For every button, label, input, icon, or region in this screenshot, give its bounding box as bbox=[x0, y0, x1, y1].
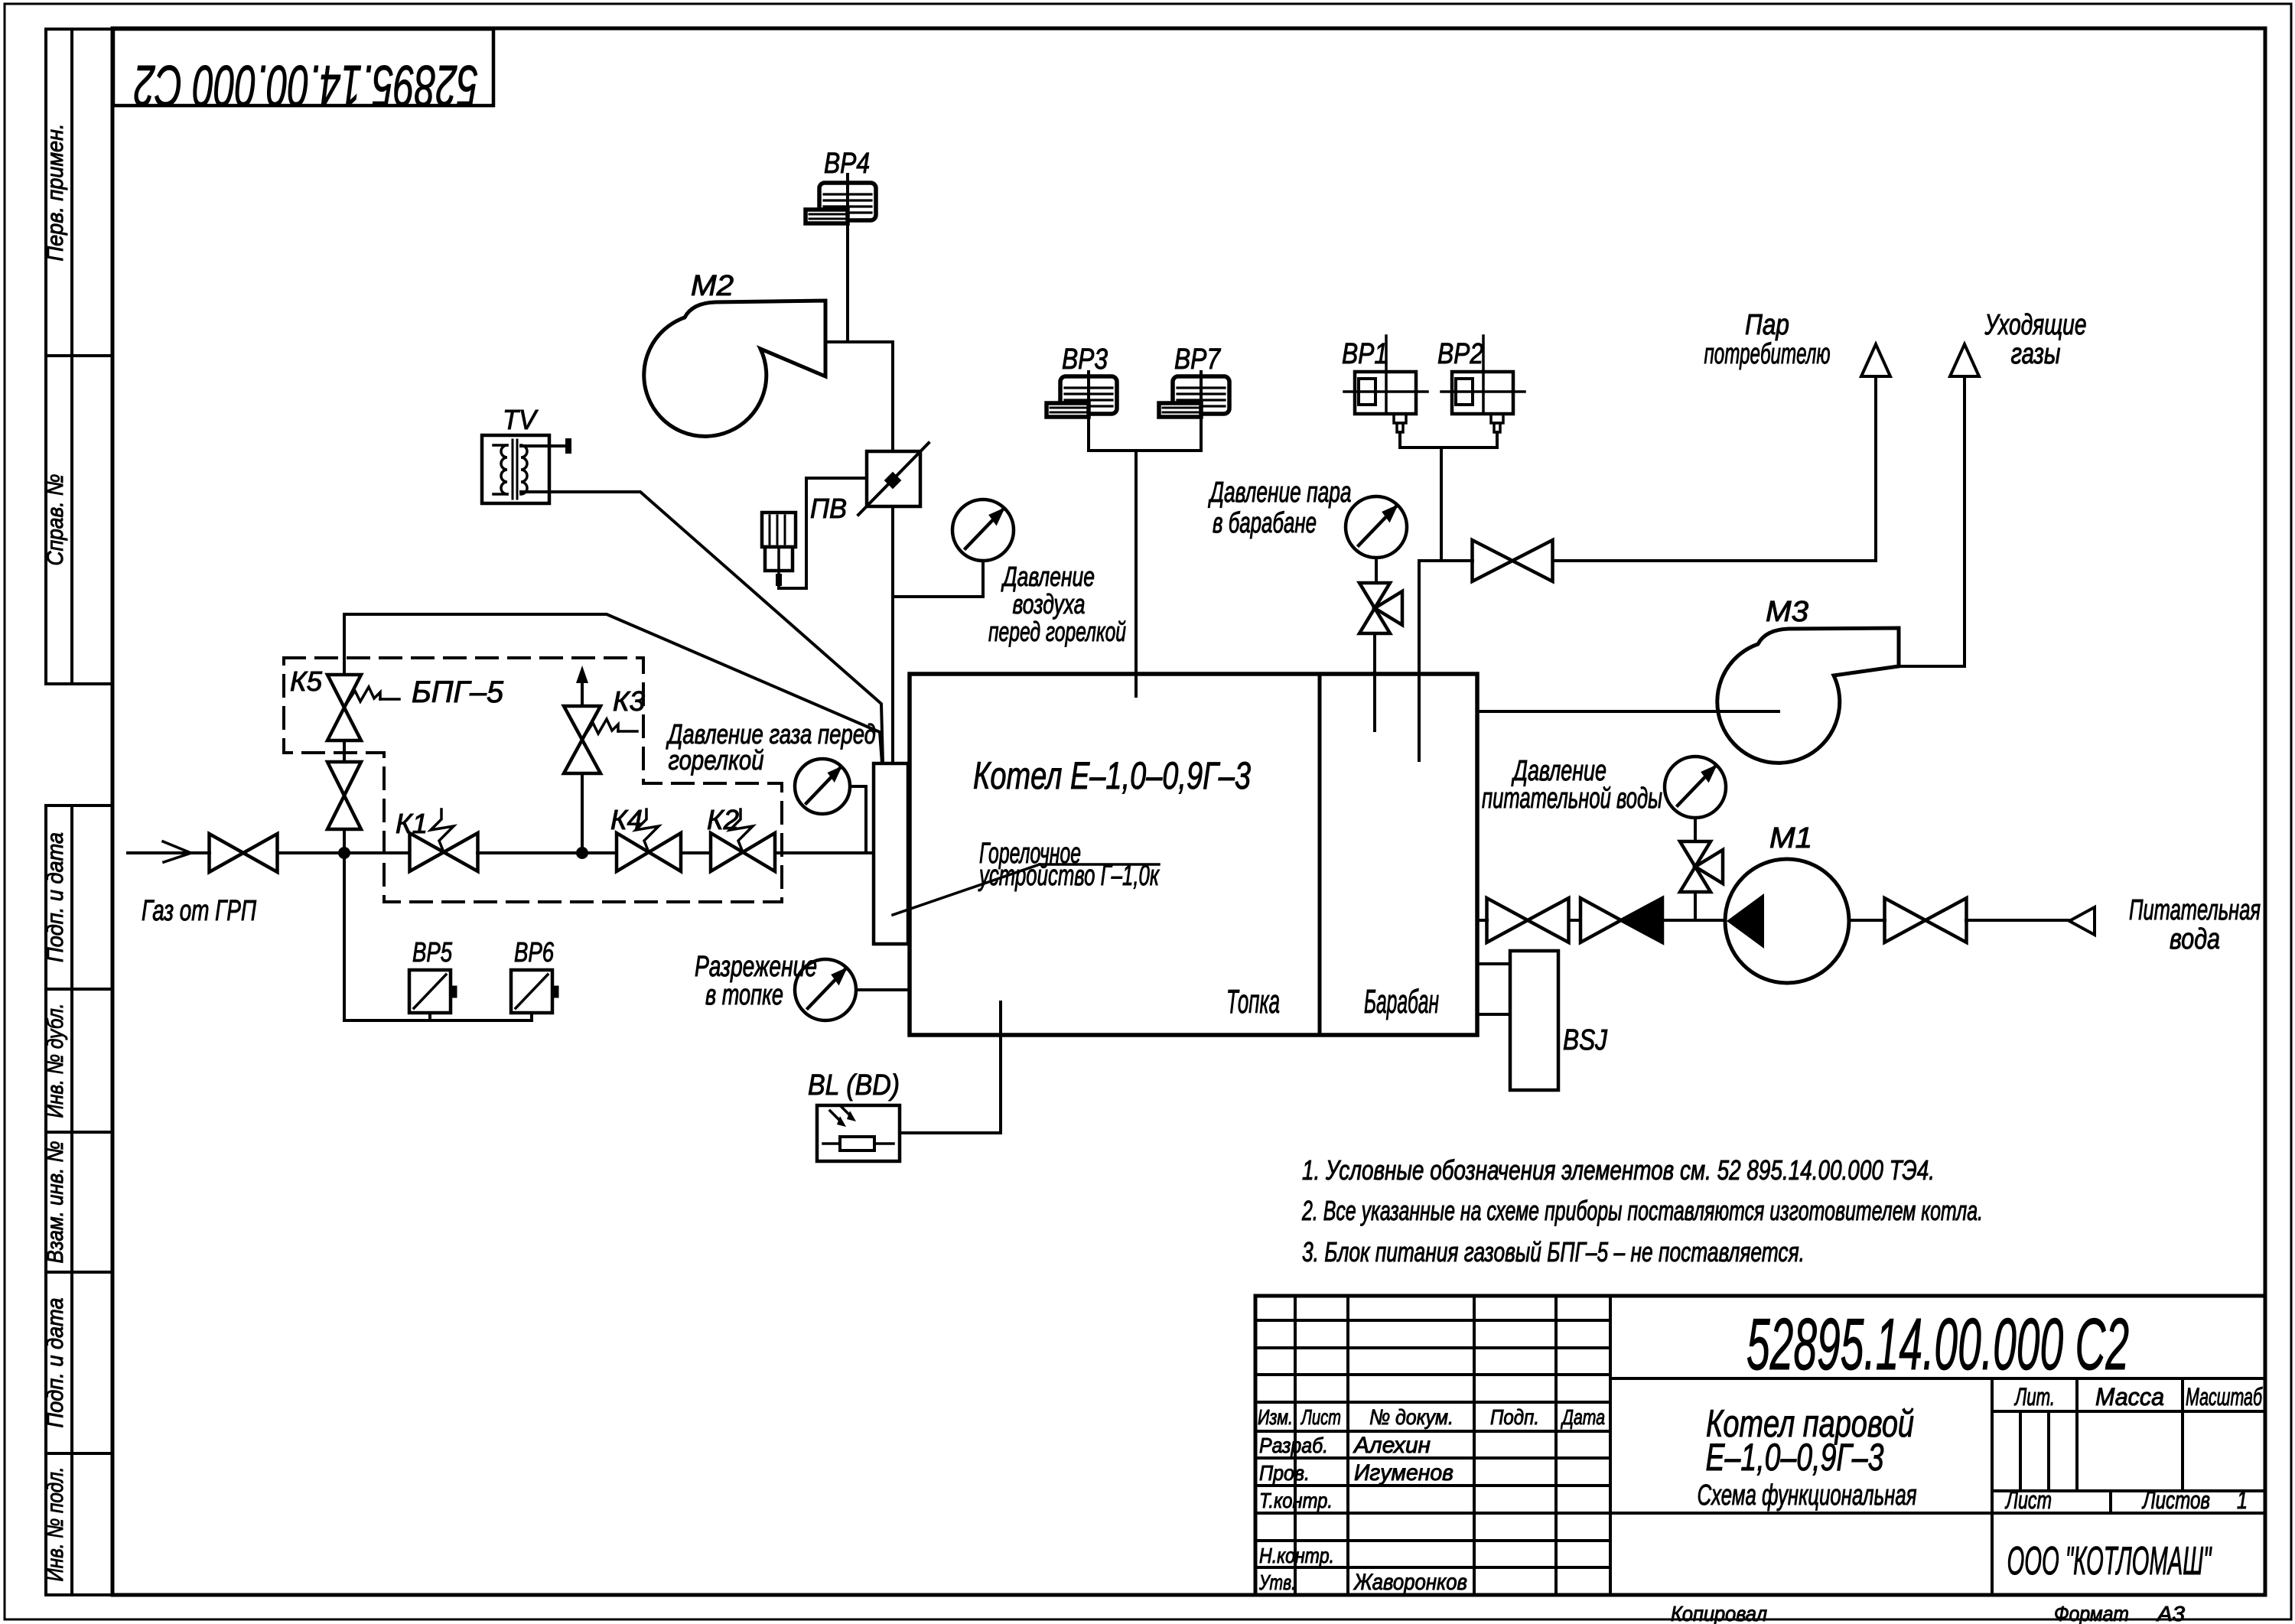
svg-text:Инв. № дубл.: Инв. № дубл. bbox=[43, 1004, 68, 1118]
title block texts bbox=[1258, 1303, 2263, 1595]
instrument ВР7 bbox=[1159, 343, 1229, 451]
svg-text:Масса: Масса bbox=[2095, 1383, 2164, 1411]
wire gas main bbox=[278, 847, 874, 859]
svg-text:потребителю: потребителю bbox=[1704, 338, 1831, 370]
wire feed water line bbox=[1477, 919, 2069, 922]
drum level device BSJ bbox=[1477, 951, 1608, 1090]
svg-text:Подп. и дата: Подп. и дата bbox=[43, 1298, 68, 1428]
svg-text:Лист: Лист bbox=[1300, 1405, 1341, 1429]
svg-text:Листов: Листов bbox=[2141, 1486, 2210, 1514]
svg-text:питательной воды: питательной воды bbox=[1482, 783, 1662, 815]
svg-text:Т.контр.: Т.контр. bbox=[1259, 1489, 1333, 1512]
wire ВР1/ВР2 impulse bbox=[1400, 447, 1497, 561]
wire ignition gas line bbox=[344, 614, 882, 763]
svg-text:52895.14.00.000 С2: 52895.14.00.000 С2 bbox=[134, 53, 478, 118]
svg-text:ВР4: ВР4 bbox=[824, 148, 870, 180]
svg-text:в барабане: в барабане bbox=[1213, 507, 1317, 539]
svg-text:Питательная: Питательная bbox=[2129, 894, 2261, 926]
arrow feed water source bbox=[2069, 894, 2261, 955]
svg-text:ВР6: ВР6 bbox=[514, 936, 555, 968]
svg-text:ПВ: ПВ bbox=[810, 493, 847, 524]
svg-text:ВР7: ВР7 bbox=[1174, 343, 1222, 376]
gauge furnace vacuum bbox=[695, 951, 910, 1020]
svg-text:К5: К5 bbox=[290, 666, 323, 697]
igniter ПВ bbox=[762, 478, 867, 588]
svg-text:перед горелкой: перед горелкой bbox=[988, 616, 1126, 647]
svg-text:Е–1,0–0,9Г–3: Е–1,0–0,9Г–3 bbox=[1706, 1436, 1884, 1479]
transformer TV bbox=[482, 404, 571, 503]
svg-text:3. Блок питания газовый БП: 3. Блок питания газовый БПГ–5 – не поста… bbox=[1302, 1236, 1805, 1268]
instrument ВР2 bbox=[1437, 336, 1525, 447]
svg-text:Котел Е–1,0–0,9Г–3: Котел Е–1,0–0,9Г–3 bbox=[973, 754, 1251, 797]
svg-text:BSJ: BSJ bbox=[1563, 1024, 1608, 1056]
svg-text:ВР1: ВР1 bbox=[1342, 338, 1388, 370]
instrument ВР3 bbox=[1047, 343, 1117, 451]
svg-text:Изм.: Изм. bbox=[1258, 1405, 1293, 1429]
wire steam line bbox=[1419, 376, 1876, 760]
svg-text:Алехин: Алехин bbox=[1353, 1433, 1431, 1458]
arrow steam to consumer bbox=[1704, 309, 1891, 376]
svg-text:газы: газы bbox=[2011, 338, 2061, 370]
svg-text:2. Все указанные на схеме: 2. Все указанные на схеме приборы постав… bbox=[1301, 1195, 1983, 1226]
left margin graph boxes bbox=[43, 29, 112, 1595]
gauge drum pressure bbox=[1208, 477, 1407, 583]
instrument ВР1 bbox=[1342, 336, 1427, 447]
gauge air pressure bbox=[893, 500, 1126, 647]
svg-text:Газ от ГРП: Газ от ГРП bbox=[142, 895, 256, 927]
svg-text:Утв.: Утв. bbox=[1258, 1570, 1296, 1594]
notes bbox=[1301, 1154, 1983, 1268]
valve К5 branch bbox=[290, 614, 399, 853]
air damper bbox=[858, 443, 929, 515]
instrument ВР6 bbox=[511, 936, 558, 1020]
valve К4 bbox=[610, 804, 681, 871]
wire gas inlet bbox=[128, 841, 256, 927]
svg-text:Лист: Лист bbox=[2005, 1486, 2052, 1514]
valve К1 bbox=[396, 808, 478, 871]
arrow flue gases out bbox=[1950, 309, 2087, 376]
valve К2 bbox=[707, 804, 775, 871]
fan М3 smoke exhauster bbox=[1717, 596, 1899, 763]
wire ВР3/ВР7 to furnace bbox=[1089, 451, 1201, 696]
svg-text:Лит.: Лит. bbox=[2014, 1383, 2055, 1411]
flame sensor BL (BD) bbox=[808, 1002, 1001, 1161]
svg-text:Инв. № подл.: Инв. № подл. bbox=[43, 1467, 68, 1582]
svg-text:Схема функциональная: Схема функциональная bbox=[1698, 1479, 1917, 1512]
svg-text:Игуменов: Игуменов bbox=[1354, 1460, 1453, 1486]
svg-text:№ докум.: № докум. bbox=[1369, 1405, 1453, 1429]
svg-text:Взам. инв. №: Взам. инв. № bbox=[43, 1141, 68, 1264]
svg-text:TV: TV bbox=[503, 404, 539, 435]
pump М1 bbox=[1725, 822, 1849, 983]
instrument ВР5 bbox=[344, 853, 532, 1020]
fan М2 bbox=[644, 270, 825, 436]
svg-text:Уходящие: Уходящие bbox=[1984, 309, 2087, 341]
svg-text:БПГ–5: БПГ–5 bbox=[412, 675, 504, 709]
svg-text:ООО "КОТЛОМАШ": ООО "КОТЛОМАШ" bbox=[2007, 1539, 2212, 1583]
svg-text:BL (BD): BL (BD) bbox=[808, 1069, 900, 1102]
boiler vessel bbox=[910, 674, 1477, 1035]
svg-text:Справ. №: Справ. № bbox=[43, 474, 68, 566]
gauge gas pressure bbox=[666, 718, 876, 853]
wire flue gas bbox=[1477, 376, 1965, 711]
dashed boundary БПГ-5 bbox=[284, 658, 782, 902]
svg-text:52895.14.00.000 С2: 52895.14.00.000 С2 bbox=[1746, 1303, 2129, 1385]
feed valve near drum bbox=[1487, 898, 1569, 942]
instrument ВР4 bbox=[806, 148, 876, 223]
svg-text:М3: М3 bbox=[1766, 596, 1808, 628]
svg-text:в топке: в топке bbox=[705, 979, 783, 1011]
svg-text:К2: К2 bbox=[707, 804, 739, 835]
three-way cock feed bbox=[1680, 841, 1723, 920]
svg-text:ВР5: ВР5 bbox=[412, 936, 453, 968]
three-way cock drum bbox=[1359, 583, 1402, 731]
svg-text:Копировал: Копировал bbox=[1671, 1602, 1767, 1624]
svg-text:Н.контр.: Н.контр. bbox=[1259, 1544, 1334, 1567]
svg-text:К1: К1 bbox=[396, 808, 428, 839]
svg-text:горелкой: горелкой bbox=[669, 744, 764, 776]
top-left inverted document number box bbox=[113, 29, 493, 118]
burner label leader bbox=[893, 838, 1160, 915]
svg-text:ВР3: ВР3 bbox=[1062, 343, 1108, 376]
svg-text:Пров.: Пров. bbox=[1259, 1461, 1310, 1485]
steam stop valve bbox=[1473, 540, 1553, 581]
svg-text:1: 1 bbox=[2237, 1486, 2248, 1514]
svg-text:Дата: Дата bbox=[1561, 1405, 1605, 1429]
valve К3 with vent arrow bbox=[564, 666, 645, 853]
svg-text:Масштаб: Масштаб bbox=[2186, 1383, 2263, 1411]
svg-text:воздуха: воздуха bbox=[1013, 588, 1086, 620]
inlet gate valve bbox=[210, 834, 278, 872]
svg-text:Барабан: Барабан bbox=[1364, 983, 1439, 1020]
title block bbox=[1255, 1296, 2265, 1595]
svg-text:Формат: Формат bbox=[2054, 1602, 2129, 1624]
svg-text:Пар: Пар bbox=[1745, 309, 1789, 341]
burner unit bbox=[874, 763, 908, 944]
svg-text:А3: А3 bbox=[2156, 1602, 2186, 1624]
svg-text:М1: М1 bbox=[1769, 822, 1812, 854]
svg-text:Давление пара: Давление пара bbox=[1208, 477, 1352, 509]
svg-text:Разраб.: Разраб. bbox=[1259, 1434, 1328, 1457]
svg-text:Жаворонков: Жаворонков bbox=[1353, 1570, 1467, 1595]
svg-text:Подп. и дата: Подп. и дата bbox=[43, 832, 68, 962]
svg-text:Разрежение: Разрежение bbox=[695, 951, 817, 983]
svg-text:К4: К4 bbox=[610, 804, 643, 835]
check valve bbox=[1580, 898, 1662, 942]
svg-text:М2: М2 bbox=[691, 270, 734, 302]
wire air duct bbox=[825, 223, 893, 763]
svg-text:Перв. примен.: Перв. примен. bbox=[43, 124, 68, 262]
svg-text:Топка: Топка bbox=[1226, 983, 1280, 1020]
wire TV to burner bbox=[549, 492, 883, 763]
svg-text:Подп.: Подп. bbox=[1490, 1405, 1539, 1429]
svg-text:Давление: Давление bbox=[1001, 561, 1095, 592]
svg-text:К3: К3 bbox=[613, 685, 645, 717]
bottom margin texts bbox=[1671, 1602, 2185, 1624]
svg-text:1. Условные обозначения эле: 1. Условные обозначения элементов см. 52… bbox=[1302, 1154, 1935, 1186]
gauge feed water pressure bbox=[1482, 755, 1726, 841]
svg-text:вода: вода bbox=[2170, 923, 2220, 955]
feed valve after pump bbox=[1885, 898, 1967, 942]
svg-text:ВР2: ВР2 bbox=[1437, 338, 1483, 370]
